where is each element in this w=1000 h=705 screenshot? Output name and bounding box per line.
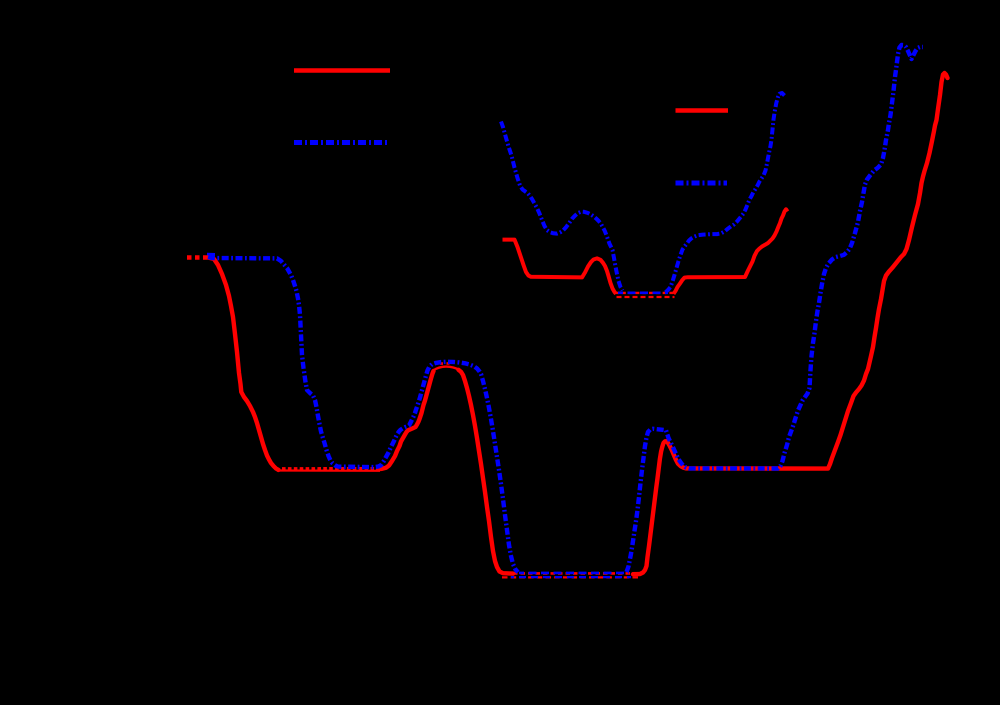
main deep-well lower thin blue dashed line bbox=[511, 576, 631, 578]
main deep-well upper thin red dashes bbox=[513, 572, 632, 575]
inset red solid curve left part bbox=[503, 240, 617, 294]
inset well-bottom upper thin red dashes bbox=[615, 292, 676, 294]
inset legend blue dash-dot sample bbox=[676, 181, 728, 186]
main red solid curve (left segment) bbox=[208, 258, 279, 470]
main red dashed segment on first flat bbox=[282, 467, 378, 470]
main blue curve dotted lead-in dash bbox=[207, 253, 215, 257]
inset legend red solid sample bbox=[676, 108, 729, 113]
main red solid curve (bump segment) bbox=[378, 370, 513, 574]
inset red solid curve right part bbox=[674, 209, 788, 293]
inset well-bottom upper thin blue dashes bbox=[618, 291, 668, 294]
main deep-well upper thin blue dashes bbox=[519, 572, 629, 575]
inset red thin dashed well-bottom line bbox=[617, 296, 675, 298]
inset blue dash-dot curve bbox=[501, 93, 785, 292]
main blue dash-dot curve bbox=[208, 45, 923, 572]
main red dotted bits on bump top bbox=[440, 362, 453, 365]
main red solid curve (right segment) bbox=[633, 73, 948, 574]
main legend blue dash-dot sample bbox=[294, 140, 390, 145]
main legend red solid sample bbox=[294, 68, 390, 73]
main red thin solid line on bump plateau bbox=[433, 367, 460, 371]
main red curve dotted lead-in bbox=[187, 255, 208, 259]
main deep-well lower thin red dashed line bbox=[502, 576, 639, 578]
main red thin solid line on first flat bbox=[277, 469, 380, 471]
